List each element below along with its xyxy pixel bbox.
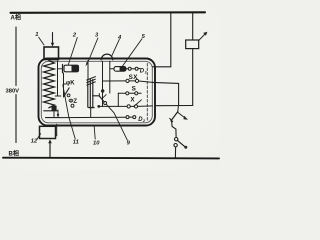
dome on case top (component 4) xyxy=(101,54,113,60)
wire vertical left inside xyxy=(57,61,59,95)
armature contact k xyxy=(98,94,100,97)
svg-text:1: 1 xyxy=(35,32,38,38)
bar lead 2 xyxy=(57,110,59,117)
svg-text:SX: SX xyxy=(129,74,139,81)
wire between switches xyxy=(172,121,177,137)
svg-text:A相: A相 xyxy=(11,14,21,22)
wire phase A top rail xyxy=(11,11,206,14)
wire S down xyxy=(117,93,119,106)
wire box 12 to case xyxy=(56,124,57,136)
contact phi-Z blade xyxy=(64,88,70,97)
arrow into box 12 xyxy=(49,143,51,157)
enclosure inner outline xyxy=(41,61,152,123)
wire D1 to top rail xyxy=(153,13,171,67)
fuse component 5 xyxy=(114,67,126,72)
inner dashed panel line xyxy=(146,64,148,122)
terminal bar 2 xyxy=(46,117,61,119)
trip coil action arrow xyxy=(198,34,204,40)
junction dot on lead xyxy=(57,114,59,116)
svg-text:10: 10 xyxy=(93,140,100,146)
arrow into box 1 xyxy=(52,33,54,44)
terminal bar lower-left xyxy=(44,110,58,112)
coil mid tick xyxy=(93,95,100,97)
component box 1 (top bellows) xyxy=(44,47,59,60)
svg-text:11: 11 xyxy=(73,139,79,145)
enclosure outer case xyxy=(39,59,156,126)
svg-text:S: S xyxy=(132,85,137,92)
trip coil lower lead xyxy=(192,49,194,106)
pivot circle xyxy=(104,102,107,105)
dark block above bar xyxy=(52,106,57,111)
svg-text:φK: φK xyxy=(66,81,75,87)
linkage arrow xyxy=(178,112,185,117)
contact phi-Z pivot circle xyxy=(67,94,70,97)
vertical wire A xyxy=(109,61,111,93)
trip coil feeder from top rail xyxy=(192,13,194,40)
vertical wire B with junction xyxy=(102,61,104,106)
wire phase B bottom rail xyxy=(3,157,219,160)
contact phi-K block (component 2) xyxy=(62,65,64,73)
phi-Z lower contact circle xyxy=(71,104,74,107)
coil winding (vertical rails) xyxy=(87,80,89,108)
coil top lead xyxy=(87,61,89,80)
knife switch (lower) xyxy=(175,138,178,141)
svg-text:B相: B相 xyxy=(9,150,19,158)
wire SX to switch xyxy=(153,82,179,105)
wire X to trip coil xyxy=(155,105,193,107)
terminal row D1 xyxy=(128,67,131,70)
terminal row D2 xyxy=(126,116,129,119)
pointer stroke through X xyxy=(134,100,142,107)
coil hatch top xyxy=(87,77,96,80)
component box 12 (bottom bellows) xyxy=(40,126,56,138)
svg-text:380V: 380V xyxy=(6,89,20,95)
resistor zigzag (heater element) xyxy=(44,61,55,108)
trip coil (release) xyxy=(186,40,199,49)
svg-text:X: X xyxy=(130,96,135,103)
wire stub to contact K xyxy=(58,68,63,70)
wire down from contact block xyxy=(63,73,65,97)
bar lead 1 xyxy=(53,111,55,117)
coil bottom bar xyxy=(89,107,94,109)
380V dimension line xyxy=(15,27,17,86)
wire switch to B rail xyxy=(174,147,176,157)
release contact (upper switch) xyxy=(177,106,180,112)
contact foot xyxy=(55,95,61,97)
